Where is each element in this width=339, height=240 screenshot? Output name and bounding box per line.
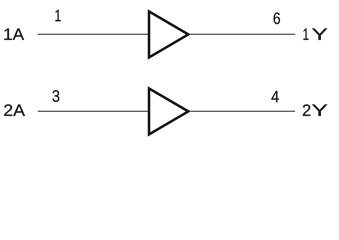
- net label 2A: [4, 104, 25, 116]
- pin 6: [274, 12, 280, 24]
- wire 2Y output: [190, 110, 295, 112]
- wire 1A input: [38, 33, 149, 35]
- net label 2Y letter Y: [312, 105, 327, 116]
- buffer gate U1A: [149, 11, 188, 57]
- pin 1: [55, 10, 60, 21]
- net label 1A: [4, 29, 24, 40]
- net label 1Y digit 1: [303, 29, 308, 40]
- pin 3: [52, 90, 59, 102]
- pin 4: [271, 91, 278, 102]
- wire 2A input: [38, 110, 149, 112]
- net label 2Y digit 2: [303, 104, 311, 116]
- buffer gate U1B: [149, 88, 188, 134]
- wire 1Y output: [190, 33, 295, 35]
- net label 1Y letter Y: [312, 29, 327, 40]
